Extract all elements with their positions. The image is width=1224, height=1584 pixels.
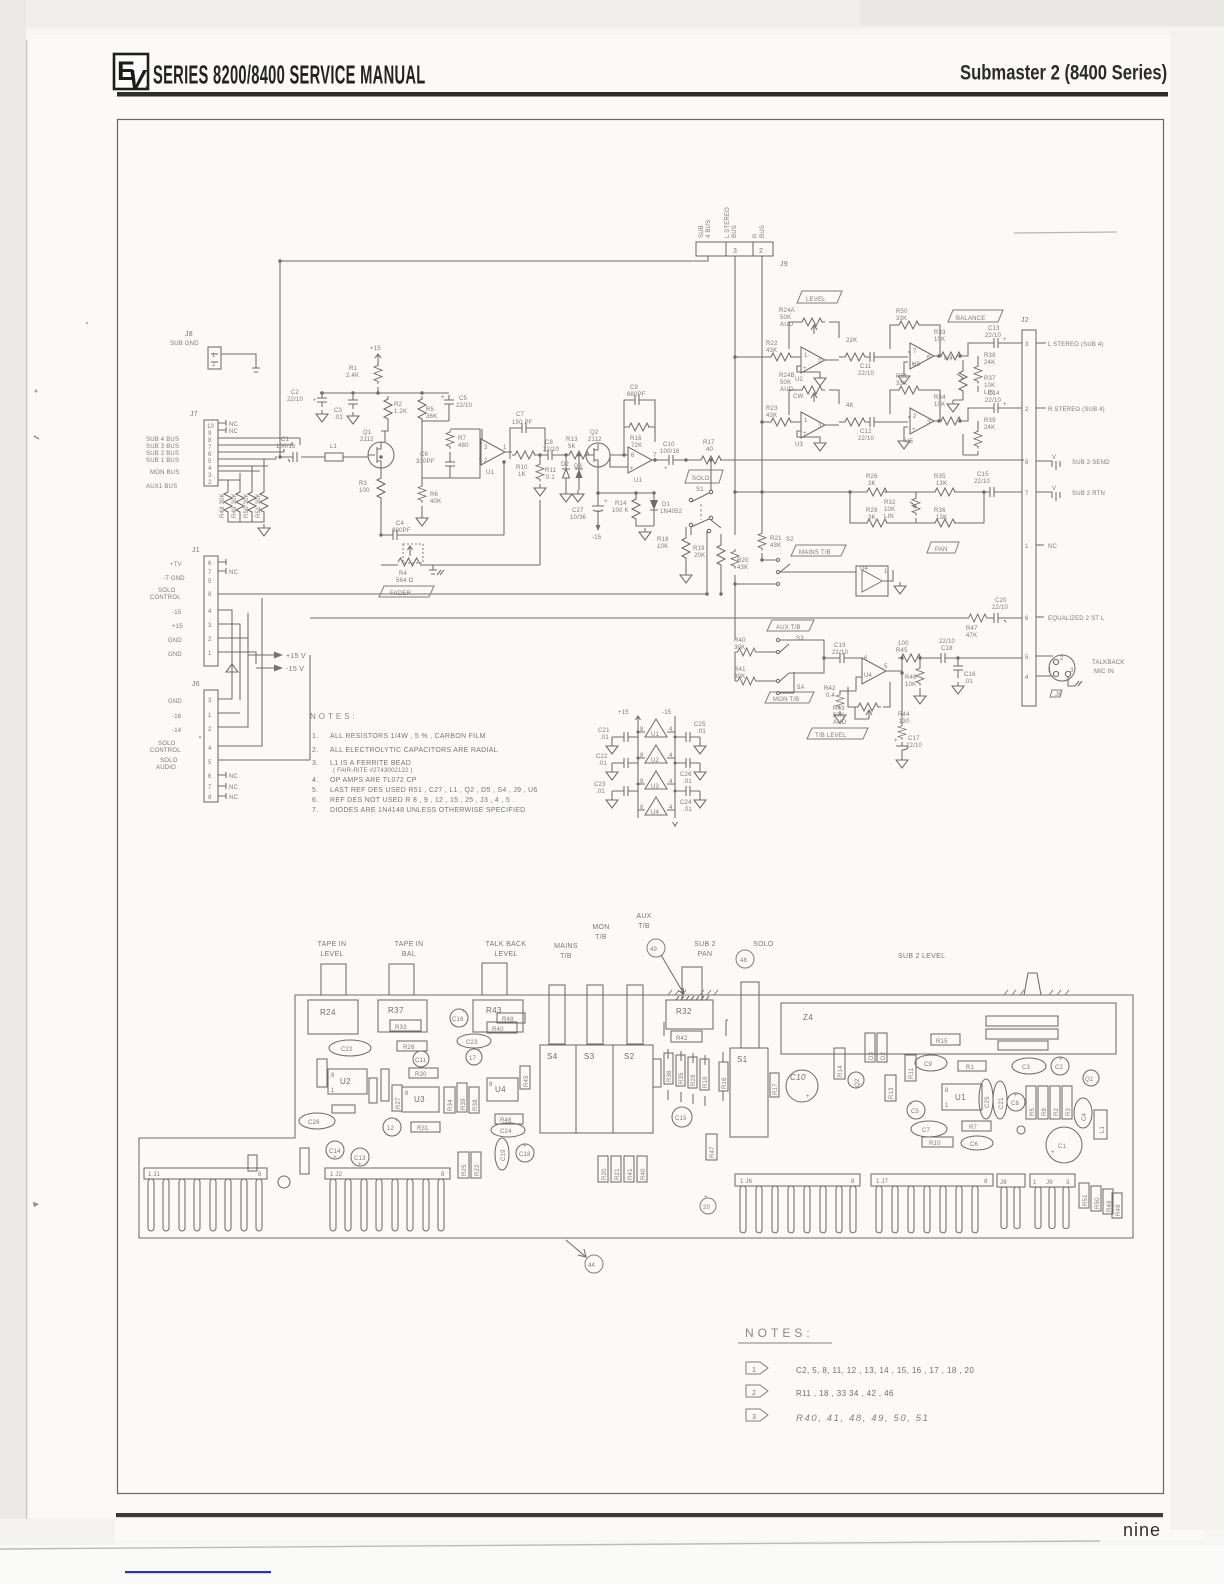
svg-text:2: 2 <box>818 359 822 365</box>
boxed R20 pcb <box>598 1156 608 1182</box>
mounting hole <box>278 1176 290 1188</box>
cap C23 <box>457 1034 491 1048</box>
svg-text:C15: C15 <box>675 1116 687 1122</box>
svg-text:8: 8 <box>331 1073 335 1079</box>
svg-text:6: 6 <box>208 561 212 567</box>
J6 wires <box>218 598 310 760</box>
svg-text:R26: R26 <box>866 474 878 480</box>
svg-text:R15: R15 <box>936 1039 948 1045</box>
svg-text:U1: U1 <box>634 478 643 484</box>
svg-text:C3: C3 <box>334 408 343 414</box>
note 2 <box>312 747 498 754</box>
svg-text:C1: C1 <box>281 437 290 443</box>
boxed R48 pcb <box>497 1013 525 1023</box>
svg-text:+: + <box>333 1155 337 1161</box>
svg-text:SOLO: SOLO <box>753 941 774 948</box>
svg-text:10/36: 10/36 <box>570 515 586 521</box>
svg-text:CW: CW <box>793 394 804 400</box>
op-amp U5a <box>904 343 942 372</box>
ground <box>914 692 926 704</box>
capacitor C6 <box>416 452 455 478</box>
svg-text:SUB 3 BUS: SUB 3 BUS <box>146 444 179 450</box>
op-amp U1a <box>479 429 512 476</box>
svg-text:NC: NC <box>229 422 239 428</box>
svg-text:680PF: 680PF <box>627 392 646 398</box>
transistor Q1 <box>360 430 394 468</box>
svg-text:SUB 2 RTN: SUB 2 RTN <box>1072 491 1105 497</box>
svg-text:U2: U2 <box>651 758 660 764</box>
svg-text:R40: R40 <box>492 1027 504 1033</box>
svg-text:5: 5 <box>208 459 212 465</box>
svg-text:-15: -15 <box>592 535 602 541</box>
svg-text:800PF: 800PF <box>392 528 411 534</box>
svg-text:3: 3 <box>208 473 212 479</box>
cap C15 pcb <box>672 1107 692 1127</box>
svg-text:R45: R45 <box>896 648 908 654</box>
op-amp U1b <box>610 447 662 484</box>
svg-text:22/10: 22/10 <box>858 371 874 377</box>
svg-text:R10: R10 <box>516 465 528 471</box>
svg-text:22/10: 22/10 <box>287 397 303 403</box>
svg-text:10K: 10K <box>657 544 668 550</box>
resistor R33 <box>934 330 986 360</box>
svg-text:10K: 10K <box>984 383 995 389</box>
svg-text:R3: R3 <box>359 481 368 487</box>
resistor R47 <box>966 614 989 639</box>
svg-text:.01: .01 <box>683 807 692 813</box>
svg-text:R11: R11 <box>909 1067 915 1079</box>
svg-text:R39: R39 <box>984 418 996 424</box>
net label L stereo <box>1010 342 1104 348</box>
svg-text:2: 2 <box>484 458 488 464</box>
boxed R5 pcb <box>1026 1086 1036 1119</box>
main border box <box>118 120 1164 1494</box>
op-amp pwr U4 <box>638 797 675 816</box>
boxed R31 pcb <box>411 1122 440 1132</box>
svg-text:PAN: PAN <box>698 951 713 958</box>
svg-text:+: + <box>806 1094 810 1100</box>
note flag 2 <box>746 1385 768 1397</box>
svg-text:SUB 2 LEVEL: SUB 2 LEVEL <box>898 953 945 960</box>
svg-text:8: 8 <box>640 753 644 759</box>
svg-text:8: 8 <box>640 805 644 811</box>
resistor R21 <box>758 531 782 560</box>
svg-text:NOTES:: NOTES: <box>745 1326 814 1340</box>
switch shaft S1 <box>741 982 759 1048</box>
svg-text:0.4: 0.4 <box>826 693 835 699</box>
capacitor C18 <box>920 639 958 663</box>
svg-text:L STEREO: L STEREO <box>725 207 731 238</box>
svg-text:R40: R40 <box>734 638 746 644</box>
svg-text:SOLO: SOLO <box>158 741 176 747</box>
ic U4 <box>487 1078 518 1101</box>
svg-text:1: 1 <box>208 713 212 719</box>
svg-text:-15: -15 <box>172 610 182 616</box>
ground <box>316 410 328 422</box>
resistor R48 <box>220 489 232 518</box>
pot shaft R43 <box>482 963 507 995</box>
svg-text:8: 8 <box>1025 460 1029 466</box>
net label equalized <box>1036 616 1105 622</box>
resistor R10 <box>512 451 538 478</box>
label talk back level <box>486 941 527 958</box>
boxed R10 pcb <box>922 1137 953 1147</box>
label aux t/b <box>636 913 651 930</box>
capacitor C23 <box>594 782 638 796</box>
capacitor C5 <box>441 395 472 421</box>
boxed R34 pcb <box>444 1087 455 1113</box>
svg-text:130: 130 <box>899 719 910 725</box>
svg-text:C8: C8 <box>545 440 554 446</box>
pot shaft R37 <box>389 964 414 995</box>
connector J2 bar <box>1021 317 1036 706</box>
svg-text:3: 3 <box>208 623 212 629</box>
svg-text:J8: J8 <box>185 331 193 338</box>
svg-text:L1: L1 <box>330 444 338 450</box>
J6 net labels <box>150 699 182 771</box>
resistor R19 <box>693 520 725 594</box>
svg-text:100 K: 100 K <box>612 508 629 514</box>
svg-text:+15: +15 <box>618 710 629 716</box>
svg-text:R50 30K: R50 30K <box>244 493 250 518</box>
svg-text:+: + <box>1059 1057 1063 1063</box>
svg-text:AUD: AUD <box>833 720 847 726</box>
svg-text:R20: R20 <box>602 1168 608 1180</box>
ground at J6 <box>226 664 238 676</box>
resistor R38 <box>974 353 996 392</box>
boxed R45 pcb <box>520 1066 530 1089</box>
svg-text:5: 5 <box>208 760 212 766</box>
capacitor C13 <box>985 326 1022 348</box>
cap C13 pcb <box>351 1148 369 1168</box>
svg-text:U1: U1 <box>486 470 495 476</box>
cap C4 pcb <box>1074 1098 1092 1128</box>
ground <box>694 742 706 754</box>
connector J6 pcb <box>735 1174 860 1233</box>
svg-text:R24A: R24A <box>779 308 795 314</box>
ground <box>680 571 692 583</box>
svg-text:C6: C6 <box>970 1142 979 1148</box>
svg-text:10K: 10K <box>884 507 895 513</box>
boxed R25 pcb <box>458 1152 469 1178</box>
cap C24 <box>491 1123 525 1137</box>
wire to pin5 <box>958 657 1022 659</box>
svg-text:1: 1 <box>212 353 216 359</box>
svg-text:6: 6 <box>208 774 212 780</box>
svg-text:6.: 6. <box>312 797 318 804</box>
svg-text:8: 8 <box>441 1172 445 1178</box>
svg-text:C4: C4 <box>396 521 405 527</box>
svg-text:6: 6 <box>631 453 635 459</box>
resistor R40 <box>734 638 758 656</box>
op-amp U3 <box>795 412 839 448</box>
svg-text:R50: R50 <box>1095 1197 1101 1209</box>
svg-text:22K: 22K <box>846 338 857 344</box>
svg-text:22/10: 22/10 <box>992 605 1008 611</box>
svg-text:100/16: 100/16 <box>660 449 680 455</box>
-15 supply arrow <box>592 525 602 541</box>
svg-text:R5: R5 <box>426 407 435 413</box>
note 4 <box>312 777 417 784</box>
svg-text:R34: R34 <box>934 395 946 401</box>
boxed R38 pcb <box>469 1087 479 1113</box>
svg-text:8: 8 <box>208 592 212 598</box>
svg-text:R29: R29 <box>866 508 878 514</box>
resistor R50 <box>244 489 256 518</box>
svg-text:C26: C26 <box>308 1120 320 1126</box>
svg-text:R22: R22 <box>766 341 778 347</box>
svg-text:ALL RESISTORS 1/4W , 5 % ,: ALL RESISTORS 1/4W , 5 % , CARBON FILM <box>330 733 486 740</box>
boxed R2 pcb <box>1050 1086 1060 1119</box>
wire R bus vertical <box>761 256 763 531</box>
op-amp pwr U2 <box>638 745 675 764</box>
pot R24A <box>779 308 839 349</box>
svg-text:4 BUS: 4 BUS <box>706 220 712 238</box>
solo pick switch S1 <box>685 461 723 535</box>
J7 NC stubs <box>218 420 226 433</box>
svg-text:R48: R48 <box>502 1017 514 1023</box>
capacitor C26 quad <box>675 758 700 785</box>
boxed R3 pcb <box>1062 1086 1072 1119</box>
svg-text:CONTROL: CONTROL <box>150 748 181 754</box>
svg-text:10K: 10K <box>934 337 945 343</box>
svg-text:R5: R5 <box>1030 1107 1036 1116</box>
header right title <box>960 61 1167 84</box>
svg-text:J9: J9 <box>780 261 788 268</box>
ground <box>534 484 546 496</box>
J1 net labels <box>150 562 185 658</box>
resistor R2 <box>381 396 407 431</box>
ground <box>834 711 846 723</box>
small parts between S2 and S1 <box>664 1053 673 1084</box>
svg-text:GND: GND <box>168 652 182 658</box>
resistor R27 <box>839 403 868 426</box>
svg-text:R41: R41 <box>734 667 746 673</box>
svg-text:C21: C21 <box>598 728 610 734</box>
svg-text:6: 6 <box>864 656 868 662</box>
svg-text:22/10: 22/10 <box>974 479 990 485</box>
J6 ground wire <box>218 690 232 699</box>
svg-text:R24: R24 <box>320 1008 336 1017</box>
resistor R51 <box>256 489 268 518</box>
svg-text:C25: C25 <box>985 1096 991 1108</box>
svg-text:R14: R14 <box>838 1065 844 1077</box>
capacitor C20 <box>988 598 1008 623</box>
ground <box>814 374 826 386</box>
svg-text:3: 3 <box>1025 342 1029 348</box>
svg-text:Q2: Q2 <box>590 430 599 436</box>
svg-text:8: 8 <box>258 1172 262 1178</box>
svg-text:4: 4 <box>208 466 212 472</box>
svg-text:C7: C7 <box>922 1128 931 1134</box>
svg-text:C19: C19 <box>834 643 846 649</box>
cap C9 pcb <box>915 1055 947 1071</box>
switch shaft S4 <box>549 985 565 1044</box>
svg-text:TALKBACK: TALKBACK <box>1092 660 1125 666</box>
svg-text:R16: R16 <box>630 436 642 442</box>
pot R4 fader <box>381 544 540 584</box>
top supply rail <box>320 387 449 393</box>
ground <box>694 768 706 780</box>
label mon t/b <box>592 924 609 941</box>
svg-text:+: + <box>1003 337 1007 343</box>
boxed R7 pcb <box>962 1121 991 1131</box>
switch S3 <box>757 638 789 653</box>
svg-text:4: 4 <box>208 746 212 752</box>
svg-text:+: + <box>912 427 916 433</box>
svg-text:22/10: 22/10 <box>543 447 559 453</box>
svg-text:V: V <box>1052 455 1056 461</box>
svg-text:7: 7 <box>1025 491 1029 497</box>
label tape in level <box>318 941 347 958</box>
svg-text:R STEREO (SUB 4): R STEREO (SUB 4) <box>1048 407 1105 413</box>
svg-text:J1: J1 <box>192 547 200 554</box>
svg-text:R51: R51 <box>1083 1194 1089 1206</box>
EV logo box <box>114 54 148 94</box>
svg-text:AUX: AUX <box>636 913 651 920</box>
svg-text:50K: 50K <box>780 380 791 386</box>
svg-text:33K: 33K <box>896 316 907 322</box>
resistor R11 <box>536 455 557 482</box>
svg-text:R51 30K: R51 30K <box>256 493 262 518</box>
svg-text:R17: R17 <box>703 440 715 446</box>
svg-text:7: 7 <box>913 349 917 355</box>
svg-text:R43: R43 <box>486 1006 502 1015</box>
ground <box>896 756 908 768</box>
svg-text:1: 1 <box>884 569 888 575</box>
svg-text:+: + <box>358 1162 362 1168</box>
svg-text:R32: R32 <box>884 500 896 506</box>
svg-text:EQUALIZED 2 ST L: EQUALIZED 2 ST L <box>1048 616 1105 622</box>
svg-text:8: 8 <box>405 1091 409 1097</box>
ground <box>639 528 651 540</box>
svg-text:3: 3 <box>484 445 488 451</box>
svg-text:J7: J7 <box>190 411 198 418</box>
net label sub2 send <box>1036 455 1110 470</box>
note flag 1 <box>746 1362 768 1374</box>
switch S2 <box>735 537 794 586</box>
wire to SUB 2 SEND <box>720 459 1024 461</box>
ground <box>898 437 910 449</box>
svg-text:R13: R13 <box>566 437 578 443</box>
svg-text:44: 44 <box>588 1263 596 1269</box>
svg-text:C26: C26 <box>680 772 692 778</box>
svg-text:R35: R35 <box>934 474 946 480</box>
ground <box>606 742 618 754</box>
svg-text:R48: R48 <box>1116 1204 1122 1216</box>
svg-text:1K: 1K <box>518 472 526 478</box>
diode D1 <box>650 493 683 519</box>
switch body S1 <box>730 1048 768 1137</box>
svg-text:LEVEL: LEVEL <box>806 297 826 303</box>
svg-text:3.: 3. <box>312 760 318 767</box>
transistor Q2 pcb <box>848 1072 864 1088</box>
leader 49 <box>647 939 684 994</box>
svg-text:564 Ω: 564 Ω <box>396 578 413 584</box>
svg-text:AUX1 BUS: AUX1 BUS <box>146 484 177 490</box>
svg-text:OP AMPS ARE TL072 CP: OP AMPS ARE TL072 CP <box>330 777 417 784</box>
svg-text:LAST REF DES USED R51 , C27 ,: LAST REF DES USED R51 , C27 , L1 , Q2 , … <box>330 787 538 794</box>
svg-text:+: + <box>1051 1150 1055 1156</box>
wire fader to chain <box>504 462 540 565</box>
svg-text:LEVEL: LEVEL <box>320 951 343 958</box>
svg-text:R4: R4 <box>399 571 408 577</box>
J1 NC stubs <box>218 559 226 574</box>
svg-text:R43: R43 <box>833 706 845 712</box>
leader 20 <box>700 1195 716 1214</box>
svg-text:1.: 1. <box>312 733 318 740</box>
svg-text:C1: C1 <box>1058 1144 1067 1150</box>
svg-text:5: 5 <box>1025 655 1029 661</box>
svg-text:+: + <box>523 1144 527 1150</box>
svg-text:AUD: AUD <box>780 322 794 328</box>
svg-text:+: + <box>477 1048 481 1054</box>
svg-text:C4: C4 <box>1082 1112 1088 1121</box>
svg-text:C22: C22 <box>341 1047 353 1053</box>
svg-text:1: 1 <box>208 651 212 657</box>
svg-text:V: V <box>128 64 148 94</box>
svg-text:4: 4 <box>1025 675 1029 681</box>
svg-text:S2: S2 <box>624 1052 635 1061</box>
svg-text:S4: S4 <box>547 1052 558 1061</box>
boxed R47 pcb <box>706 1134 717 1160</box>
svg-text:AUX T/B: AUX T/B <box>776 625 801 631</box>
connector J7 <box>190 411 218 486</box>
svg-text:R17: R17 <box>773 1083 779 1095</box>
svg-text:MON T/B: MON T/B <box>773 697 799 703</box>
svg-text:3: 3 <box>208 698 212 704</box>
note 6 <box>312 797 515 804</box>
svg-text:R: R <box>753 233 759 238</box>
svg-text:R2: R2 <box>1054 1107 1060 1116</box>
cap C5 pcb <box>907 1101 925 1119</box>
resistor legs <box>668 1049 723 1106</box>
svg-text:1: 1 <box>804 353 808 359</box>
svg-text:.01: .01 <box>683 779 692 785</box>
ground <box>560 490 572 502</box>
boxed R39 pcb <box>457 1083 467 1112</box>
svg-text:49: 49 <box>650 947 658 953</box>
svg-text:R50: R50 <box>896 309 908 315</box>
svg-text:2: 2 <box>913 414 917 420</box>
svg-text:+: + <box>894 738 898 744</box>
svg-text:C11: C11 <box>860 364 872 370</box>
svg-text:U3: U3 <box>414 1095 425 1104</box>
pot body R24 <box>308 1000 358 1034</box>
resistor R17 <box>680 440 724 464</box>
leader 48 <box>736 950 754 968</box>
svg-text:33K: 33K <box>896 381 907 387</box>
svg-text:R19: R19 <box>703 1076 709 1088</box>
leader 44 <box>566 1240 603 1273</box>
pot R32 <box>884 492 920 523</box>
cap C11 pcb <box>413 1051 429 1067</box>
svg-text:7: 7 <box>208 785 212 791</box>
svg-text:10: 10 <box>207 424 215 430</box>
svg-text:2112: 2112 <box>360 437 374 443</box>
svg-text:4: 4 <box>669 727 673 733</box>
svg-text:MAINS T/B: MAINS T/B <box>799 550 831 556</box>
scan page edge diagonal <box>0 1541 1100 1549</box>
svg-text:+: + <box>462 1009 466 1015</box>
resistor R23 <box>762 406 801 426</box>
svg-text:.01: .01 <box>600 735 609 741</box>
svg-text:BUS: BUS <box>732 225 738 238</box>
svg-text:R41: R41 <box>628 1168 634 1180</box>
svg-text:7.: 7. <box>312 807 318 814</box>
svg-text:TAPE IN: TAPE IN <box>395 941 424 948</box>
svg-text:+: + <box>1014 1093 1018 1099</box>
